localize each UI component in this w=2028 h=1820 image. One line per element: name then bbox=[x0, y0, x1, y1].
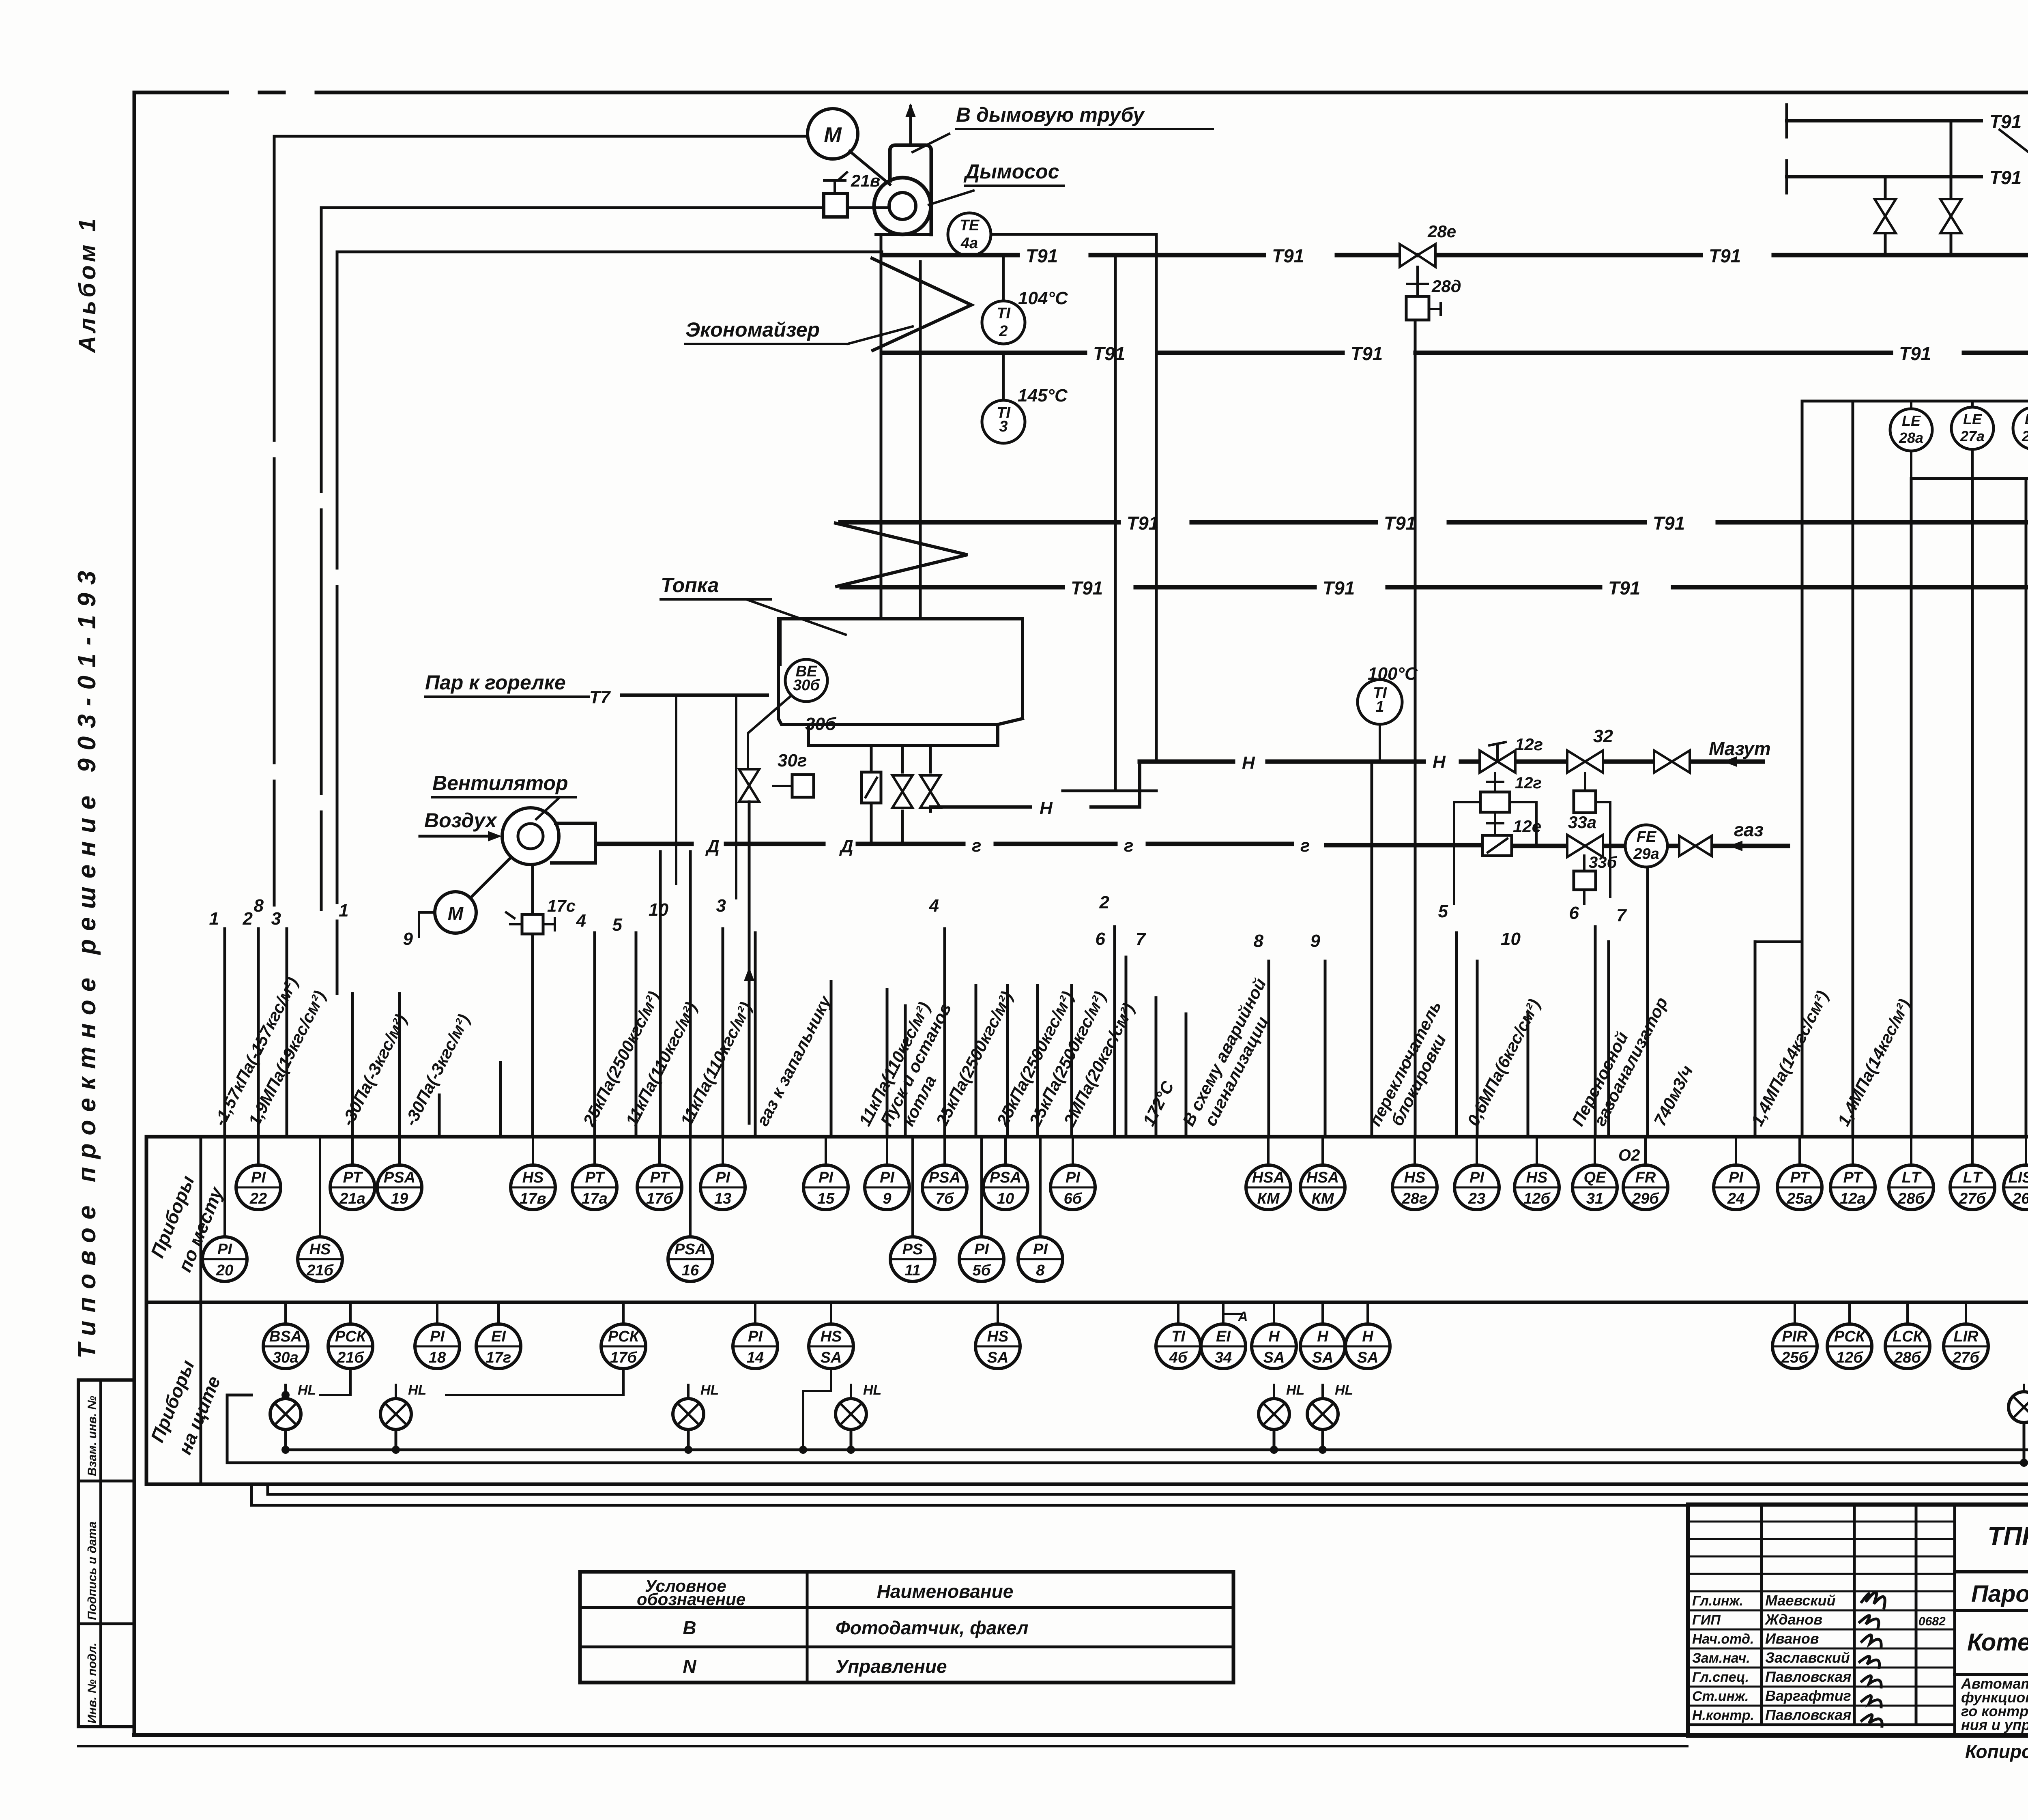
svg-text:РIR: РIR bbox=[1782, 1328, 1808, 1345]
instrument РS 11 bbox=[890, 1237, 935, 1281]
instrument РSА 10 bbox=[983, 1165, 1028, 1210]
instrument LISА 26б bbox=[2004, 1165, 2028, 1210]
svg-text:100°С: 100°С bbox=[1368, 664, 1418, 684]
svg-text:2: 2 bbox=[999, 323, 1008, 340]
svg-text:РI: РI bbox=[819, 1169, 834, 1186]
signal drops from level elements to panel bbox=[1910, 479, 1913, 1137]
burner valve 3 bbox=[920, 775, 941, 808]
svg-text:26б: 26б bbox=[2012, 1190, 2028, 1207]
svg-text:25а: 25а bbox=[1786, 1190, 1812, 1207]
svg-text:24: 24 bbox=[1727, 1190, 1744, 1207]
svg-text:T91: T91 bbox=[1653, 513, 1685, 534]
level element LE 27a bbox=[1971, 401, 1974, 407]
svg-text:1: 1 bbox=[339, 901, 348, 921]
instrument ЕI 34 bbox=[1201, 1324, 1246, 1369]
svg-text:29а: 29а bbox=[1633, 846, 1659, 863]
svg-text:Варгафтиг: Варгафтиг bbox=[1765, 1687, 1851, 1704]
sheet frame left edge bbox=[133, 92, 136, 1735]
instrument РI 20 bbox=[202, 1237, 247, 1281]
instrument Н SА bbox=[1345, 1324, 1390, 1369]
svg-text:Павловская: Павловская bbox=[1765, 1706, 1851, 1723]
svg-text:РI: РI bbox=[430, 1328, 445, 1345]
svg-text:T91: T91 bbox=[1272, 245, 1304, 266]
svg-text:8: 8 bbox=[254, 896, 264, 916]
svg-text:5: 5 bbox=[1438, 901, 1448, 921]
svg-text:LЕ: LЕ bbox=[2025, 411, 2028, 427]
svg-text:20: 20 bbox=[216, 1262, 233, 1279]
svg-text:34: 34 bbox=[1215, 1349, 1232, 1366]
svg-text:SА: SА bbox=[821, 1349, 842, 1366]
svg-text:НS: НS bbox=[309, 1241, 331, 1258]
title block bbox=[1688, 1505, 2028, 1736]
svg-text:SА: SА bbox=[1357, 1349, 1379, 1366]
svg-text:FЕ: FЕ bbox=[1637, 828, 1657, 846]
band internal elbows bbox=[320, 1369, 831, 1450]
svg-text:РСК: РСК bbox=[335, 1328, 367, 1345]
svg-text:12б: 12б bbox=[1523, 1190, 1551, 1207]
svg-text:QЕ: QЕ bbox=[1584, 1169, 1607, 1186]
oil block valve bbox=[1654, 751, 1690, 773]
gas control valve 12e bbox=[1482, 835, 1512, 856]
instrument РI 13 bbox=[700, 1165, 745, 1210]
instrument РI 24 bbox=[1714, 1165, 1758, 1210]
svg-text:РI: РI bbox=[1033, 1241, 1048, 1258]
svg-text:Н: Н bbox=[1040, 798, 1053, 818]
svg-text:LТ: LТ bbox=[1902, 1169, 1922, 1186]
instrument РI 8 bbox=[1018, 1237, 1063, 1281]
instrument НS SА bbox=[975, 1324, 1020, 1369]
svg-text:6: 6 bbox=[1096, 929, 1106, 949]
actuator 32 box bbox=[1574, 791, 1596, 813]
svg-text:T91: T91 bbox=[1026, 245, 1058, 266]
svg-text:Вентилятор: Вентилятор bbox=[432, 772, 568, 794]
instrument Н SА bbox=[1300, 1324, 1345, 1369]
svg-text:LТ: LТ bbox=[1963, 1169, 1983, 1186]
svg-text:30а: 30а bbox=[273, 1349, 298, 1366]
instrument НS SА bbox=[809, 1324, 853, 1369]
leader to fan bbox=[929, 191, 973, 205]
svg-text:LЕ: LЕ bbox=[1902, 412, 1921, 429]
instrument LСК 28б bbox=[1885, 1324, 1930, 1369]
wire bus B vertical drop bbox=[320, 208, 323, 910]
valve actuator 21v bbox=[824, 193, 847, 217]
gate valve right on steam crossover bbox=[1950, 121, 1953, 256]
svg-text:LЕ: LЕ bbox=[1963, 411, 1982, 427]
svg-text:12г: 12г bbox=[1515, 774, 1542, 792]
svg-text:М: М bbox=[448, 903, 464, 924]
panel wiring bus 2 bbox=[227, 1038, 2028, 1463]
svg-text:28е: 28е bbox=[1427, 222, 1456, 241]
svg-text:6: 6 bbox=[1569, 903, 1579, 923]
svg-text:T91: T91 bbox=[1093, 343, 1125, 364]
svg-text:РI: РI bbox=[217, 1241, 232, 1258]
gas to igniter line bbox=[748, 802, 751, 1123]
svg-text:Н: Н bbox=[1242, 753, 1255, 773]
svg-text:27б: 27б bbox=[1952, 1349, 1980, 1366]
svg-text:М: М bbox=[824, 123, 842, 147]
svg-text:T91: T91 bbox=[1989, 167, 2022, 188]
svg-text:ТПР 903-01-193: ТПР 903-01-193 bbox=[1987, 1522, 2028, 1551]
economizer coil zigzag bbox=[872, 258, 971, 350]
svg-text:FR: FR bbox=[1635, 1169, 1656, 1186]
svg-text:31: 31 bbox=[1586, 1190, 1603, 1207]
svg-text:T91: T91 bbox=[1323, 577, 1355, 599]
svg-text:27а: 27а bbox=[1960, 428, 1985, 444]
motor M (smoke exhauster) bbox=[808, 109, 858, 159]
svg-text:HL: HL bbox=[863, 1382, 881, 1398]
instrument РТ 21а bbox=[330, 1165, 375, 1210]
instrument РI 18 bbox=[415, 1324, 460, 1369]
svg-text:РI: РI bbox=[974, 1241, 989, 1258]
svg-text:17а: 17а bbox=[582, 1190, 607, 1207]
svg-text:РСК: РСК bbox=[608, 1328, 640, 1345]
instrument РSА 7б bbox=[922, 1165, 967, 1210]
svg-text:T91: T91 bbox=[1709, 245, 1741, 266]
svg-text:3: 3 bbox=[716, 896, 726, 916]
instrument РСК 17б bbox=[601, 1324, 646, 1369]
boiler bank coil zigzag bbox=[836, 523, 967, 586]
svg-text:ВSА: ВSА bbox=[269, 1328, 302, 1345]
svg-text:Дымосос: Дымосос bbox=[963, 160, 1059, 183]
svg-text:Гл.спец.: Гл.спец. bbox=[1692, 1670, 1749, 1685]
instrument LIR 27б bbox=[1944, 1324, 1988, 1369]
instrument LТ 28б bbox=[1889, 1165, 1933, 1210]
svg-text:10: 10 bbox=[1501, 929, 1521, 949]
fan scroll circle bbox=[874, 178, 931, 234]
svg-text:Зам.нач.: Зам.нач. bbox=[1692, 1650, 1750, 1666]
svg-text:6б: 6б bbox=[1064, 1190, 1083, 1207]
instrument НS 17в bbox=[511, 1165, 555, 1210]
instrument РI 5б bbox=[959, 1237, 1004, 1281]
instrument НSА КМ bbox=[1246, 1165, 1291, 1210]
sheet frame bottom edge bbox=[134, 1733, 2028, 1737]
instrument РI 6б bbox=[1051, 1165, 1095, 1210]
svg-text:HL: HL bbox=[700, 1382, 719, 1398]
instrument РТ 17б bbox=[637, 1165, 682, 1210]
furnace box (Topka) bbox=[778, 619, 1023, 745]
svg-text:21б: 21б bbox=[306, 1262, 334, 1279]
svg-text:17б: 17б bbox=[610, 1349, 637, 1366]
svg-text:33а: 33а bbox=[1568, 813, 1596, 832]
instrument РI 22 bbox=[236, 1165, 281, 1210]
TI 1 thermometer on oil line bbox=[1358, 680, 1402, 724]
svg-text:4: 4 bbox=[576, 911, 586, 931]
svg-text:7: 7 bbox=[1616, 906, 1627, 925]
svg-text:LIR: LIR bbox=[1953, 1328, 1979, 1345]
svg-text:РI: РI bbox=[715, 1169, 730, 1186]
flue duct lines fan to furnace bbox=[880, 237, 883, 619]
svg-text:HL: HL bbox=[1286, 1382, 1304, 1398]
instrument РТ 17а bbox=[572, 1165, 617, 1210]
svg-text:РSА: РSА bbox=[929, 1169, 960, 1186]
svg-text:Взам. инв. №: Взам. инв. № bbox=[86, 1396, 99, 1476]
instrument РIR 25б bbox=[1772, 1324, 1817, 1369]
svg-text:15: 15 bbox=[817, 1190, 835, 1207]
svg-text:Иванов: Иванов bbox=[1765, 1630, 1819, 1647]
instrument НS 28г bbox=[1392, 1165, 1437, 1210]
smoke exhauster fan (Dymosos) bbox=[890, 145, 931, 234]
instrument LТ 27б bbox=[1950, 1165, 1995, 1210]
svg-text:33б: 33б bbox=[1589, 854, 1617, 871]
svg-text:10: 10 bbox=[997, 1190, 1014, 1207]
svg-text:г: г bbox=[1300, 836, 1310, 856]
level taps manifold on drum bbox=[1802, 400, 2028, 403]
svg-text:18: 18 bbox=[429, 1349, 446, 1366]
svg-text:30б: 30б bbox=[805, 714, 837, 734]
burner valve 2 bbox=[892, 775, 913, 808]
svg-text:НS: НS bbox=[1526, 1169, 1548, 1186]
svg-text:28д: 28д bbox=[1431, 277, 1461, 296]
svg-text:Д: Д bbox=[705, 837, 720, 856]
svg-text:13: 13 bbox=[714, 1190, 731, 1207]
svg-text:17г: 17г bbox=[486, 1349, 511, 1366]
actuator 28d box bbox=[1416, 267, 1419, 296]
svg-text:Инв. № подл.: Инв. № подл. bbox=[86, 1643, 99, 1723]
svg-text:4а: 4а bbox=[960, 235, 978, 252]
svg-text:9: 9 bbox=[883, 1190, 891, 1207]
svg-text:РТ: РТ bbox=[650, 1169, 670, 1186]
flue gas line T91 #2 bbox=[883, 351, 2028, 355]
svg-text:Управление: Управление bbox=[836, 1656, 947, 1677]
instrument РI 15 bbox=[803, 1165, 848, 1210]
oil line from burner bbox=[930, 762, 1140, 811]
svg-text:обозначение: обозначение bbox=[637, 1590, 745, 1609]
svg-text:14: 14 bbox=[747, 1349, 764, 1366]
oil line (Mazut) bbox=[1140, 760, 1763, 764]
svg-text:Заславский: Заславский bbox=[1765, 1649, 1850, 1666]
svg-text:В: В bbox=[683, 1617, 696, 1638]
svg-text:Топка: Топка bbox=[661, 574, 719, 597]
actuator 33b box bbox=[1574, 871, 1596, 890]
svg-text:ТЕ: ТЕ bbox=[960, 217, 980, 234]
svg-text:Типовое проектное решение 903-: Типовое проектное решение 903-01-193 bbox=[73, 563, 101, 1359]
svg-text:Копировал: Родина: Копировал: Родина bbox=[1965, 1741, 2028, 1762]
measurement signal drops to instrument rows bbox=[225, 320, 1755, 1137]
svg-text:Воздух: Воздух bbox=[424, 809, 498, 832]
FE 29a signal drop bbox=[1646, 867, 1649, 1137]
svg-text:ТI: ТI bbox=[1171, 1328, 1186, 1345]
svg-text:РТ: РТ bbox=[585, 1169, 605, 1186]
actuator 12g box and bypass bbox=[1480, 792, 1510, 812]
signature scribbles bbox=[1860, 1592, 1885, 1726]
wire bus A vertical drop bbox=[273, 136, 276, 905]
instrument QЕ 31 bbox=[1573, 1165, 1617, 1210]
steam main stub T91 lower bbox=[1785, 161, 1788, 193]
burner gas control valve bbox=[861, 772, 881, 803]
svg-text:T91: T91 bbox=[1071, 577, 1103, 599]
instrument РСК 12б bbox=[1827, 1324, 1872, 1369]
below band return wires bbox=[251, 1484, 2028, 1505]
svg-text:Альбом 1: Альбом 1 bbox=[74, 215, 101, 354]
steam pressure tap 12a drop bbox=[1852, 401, 1854, 1137]
instrument РI 14 bbox=[733, 1324, 778, 1369]
svg-text:21в: 21в bbox=[851, 171, 880, 190]
air/gas line from fan (D/g) bbox=[597, 844, 1788, 846]
svg-text:Н: Н bbox=[1433, 752, 1446, 772]
instrument РСК 21б bbox=[328, 1324, 373, 1369]
svg-text:НS: НS bbox=[522, 1169, 544, 1186]
svg-text:НSА: НSА bbox=[1252, 1169, 1285, 1186]
svg-text:Мазут: Мазут bbox=[1709, 738, 1771, 759]
wire motor M to fan bbox=[850, 151, 890, 185]
legend table bbox=[580, 1572, 1233, 1683]
svg-text:SА: SА bbox=[987, 1349, 1009, 1366]
signal 17s to panel bbox=[531, 934, 534, 1137]
svg-text:РI: РI bbox=[1729, 1169, 1744, 1186]
lamp HL bbox=[2009, 1376, 2028, 1423]
signal drops from T91 lines bbox=[1114, 255, 1117, 791]
svg-text:НS: НS bbox=[821, 1328, 842, 1345]
svg-text:Паровые котлы типа ДЕ: Паровые котлы типа ДЕ bbox=[1971, 1581, 2028, 1607]
svg-text:Маевский: Маевский bbox=[1765, 1592, 1836, 1609]
svg-text:5: 5 bbox=[612, 915, 623, 935]
svg-text:Котел ДЕ-10-14ГМ: Котел ДЕ-10-14ГМ bbox=[1967, 1629, 2028, 1656]
leader steam mains bbox=[2000, 130, 2028, 215]
instrument НSА КМ bbox=[1300, 1165, 1345, 1210]
svg-text:Экономайзер: Экономайзер bbox=[685, 318, 820, 341]
svg-text:4б: 4б bbox=[1169, 1349, 1188, 1366]
actuator 17s bbox=[531, 865, 534, 914]
lamp HL bbox=[270, 1382, 316, 1429]
svg-text:газ: газ bbox=[1734, 819, 1764, 840]
flue gas line T91 #3 bbox=[840, 520, 2028, 525]
svg-text:T91: T91 bbox=[1989, 111, 2022, 132]
svg-text:Подпись и дата: Подпись и дата bbox=[86, 1522, 99, 1620]
instrument ЕI 17г bbox=[476, 1324, 521, 1369]
svg-text:В дымовую трубу: В дымовую трубу bbox=[956, 103, 1145, 126]
instrument ТI 4б bbox=[1156, 1324, 1201, 1369]
svg-text:Н.контр.: Н.контр. bbox=[1692, 1708, 1754, 1723]
svg-text:РI: РI bbox=[251, 1169, 266, 1186]
svg-text:T91: T91 bbox=[1899, 343, 1931, 364]
leader to stack bbox=[913, 134, 949, 152]
svg-text:Жданов: Жданов bbox=[1764, 1611, 1822, 1628]
sheet cut edge bottom bbox=[78, 1745, 1687, 1747]
flow element FE 29a bbox=[1625, 825, 1667, 867]
stack arrow (to chimney) bbox=[909, 106, 912, 145]
igniter gas valve 30g bbox=[739, 769, 759, 802]
svg-text:25б: 25б bbox=[1781, 1349, 1809, 1366]
svg-text:Ст.инж.: Ст.инж. bbox=[1692, 1689, 1749, 1704]
svg-text:12а: 12а bbox=[1840, 1190, 1865, 1207]
flame sensor BE 30b bbox=[779, 619, 782, 665]
svg-text:РSА: РSА bbox=[990, 1169, 1021, 1186]
svg-text:22: 22 bbox=[249, 1190, 267, 1207]
svg-text:Д: Д bbox=[839, 837, 853, 856]
svg-text:32: 32 bbox=[1593, 726, 1613, 746]
left margin strip table bbox=[78, 1380, 134, 1727]
instrument РI 23 bbox=[1454, 1165, 1499, 1210]
svg-text:Н: Н bbox=[1362, 1328, 1374, 1345]
svg-text:0682: 0682 bbox=[1918, 1615, 1946, 1628]
thermometer TI 2 bbox=[1002, 255, 1005, 300]
lamp HL bbox=[380, 1382, 426, 1429]
svg-text:104°С: 104°С bbox=[1018, 288, 1068, 308]
leader furnace bbox=[746, 599, 846, 635]
temperature element TE 4a bbox=[948, 213, 991, 256]
svg-text:Нач.отд.: Нач.отд. bbox=[1692, 1631, 1754, 1647]
lamp HL bbox=[673, 1382, 719, 1429]
svg-text:21а: 21а bbox=[339, 1190, 365, 1207]
svg-text:28б: 28б bbox=[1897, 1190, 1925, 1207]
svg-text:30г: 30г bbox=[778, 751, 807, 770]
svg-text:РSА: РSА bbox=[384, 1169, 415, 1186]
leader to economizer bbox=[848, 326, 913, 344]
svg-text:НSА: НSА bbox=[1306, 1169, 1339, 1186]
instrument band table bbox=[146, 1137, 2028, 1484]
bypass stub line 5 bbox=[1453, 847, 1455, 904]
svg-text:5б: 5б bbox=[973, 1262, 991, 1279]
svg-text:SА: SА bbox=[1263, 1349, 1285, 1366]
lower level taps collector bbox=[1910, 451, 1912, 479]
svg-text:29б: 29б bbox=[1632, 1190, 1659, 1207]
panel wiring bus 1 bbox=[286, 1038, 2028, 1463]
motor M (air fan) bbox=[435, 892, 476, 933]
svg-text:8: 8 bbox=[1254, 931, 1264, 951]
control valve 28e on T91 line bbox=[1416, 254, 1419, 257]
air fan (Ventilator) bbox=[502, 808, 559, 865]
svg-text:РI: РI bbox=[748, 1328, 763, 1345]
level element LE 28a bbox=[1910, 401, 1912, 409]
svg-text:1: 1 bbox=[1375, 698, 1384, 715]
svg-text:ТI: ТI bbox=[997, 305, 1011, 322]
svg-text:НS: НS bbox=[1404, 1169, 1426, 1186]
svg-text:17б: 17б bbox=[646, 1190, 673, 1207]
svg-text:17в: 17в bbox=[520, 1190, 546, 1207]
svg-text:1: 1 bbox=[209, 909, 219, 929]
signal line TE4a loop bbox=[991, 234, 1156, 762]
svg-text:г: г bbox=[1124, 836, 1133, 856]
instrument РI 9 bbox=[865, 1165, 909, 1210]
svg-text:НS: НS bbox=[987, 1328, 1009, 1345]
svg-text:HL: HL bbox=[408, 1382, 426, 1398]
svg-text:РТ: РТ bbox=[343, 1169, 363, 1186]
instrument РТ 12а bbox=[1830, 1165, 1875, 1210]
wire 21v to fan hub bbox=[847, 206, 889, 209]
instrument FR 29б bbox=[1623, 1165, 1668, 1210]
svg-text:Т7: Т7 bbox=[589, 687, 611, 707]
gate valve left on steam crossover bbox=[1884, 177, 1887, 256]
svg-text:РSА: РSА bbox=[675, 1241, 706, 1258]
svg-text:8: 8 bbox=[1036, 1262, 1045, 1279]
instrument РSА 16 bbox=[668, 1237, 713, 1281]
svg-text:РI: РI bbox=[1066, 1169, 1081, 1186]
svg-text:КМ: КМ bbox=[1257, 1190, 1280, 1207]
wiring junction dots bbox=[281, 1446, 290, 1454]
steam pressure tap 25a drop bbox=[1801, 401, 1804, 1137]
flag A on EI 34 bbox=[1223, 1314, 1241, 1324]
svg-text:12г: 12г bbox=[1515, 735, 1543, 754]
valve 33a bbox=[1567, 835, 1603, 857]
svg-text:9: 9 bbox=[1310, 931, 1321, 951]
instrument ВSА 30а bbox=[263, 1324, 308, 1369]
svg-text:КМ: КМ bbox=[1311, 1190, 1334, 1207]
instrument НS 12б bbox=[1515, 1165, 1559, 1210]
lamp HL bbox=[1307, 1382, 1353, 1429]
svg-text:г: г bbox=[972, 836, 981, 856]
svg-text:ния и управления.: ния и управления. bbox=[1961, 1717, 2028, 1733]
svg-text:О2: О2 bbox=[1618, 1146, 1640, 1164]
svg-text:N: N bbox=[683, 1656, 696, 1677]
svg-text:28б: 28б bbox=[1894, 1349, 1921, 1366]
flue gas line T91 #1 bbox=[882, 253, 2028, 258]
instrument РSА 19 bbox=[377, 1165, 422, 1210]
steam main stub T91 upper bbox=[1785, 105, 1788, 137]
wire bus C to T91 line bbox=[337, 251, 882, 253]
svg-text:РТ: РТ bbox=[1843, 1169, 1863, 1186]
thermometer TI 3 bbox=[1002, 353, 1005, 399]
oil valve 32 bbox=[1567, 751, 1603, 773]
